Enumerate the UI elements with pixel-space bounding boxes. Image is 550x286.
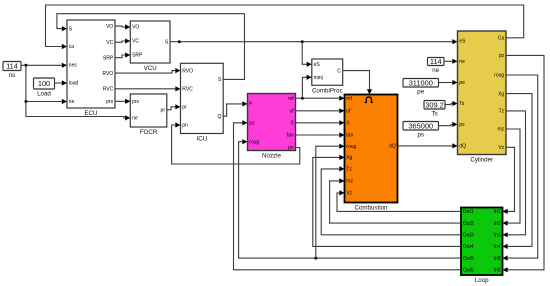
wire S branch -> CombiProc.eS <box>302 42 312 67</box>
junction S branch for CombiProc <box>301 40 304 43</box>
wire Cylinder.pz -> Loop.In6 <box>503 55 545 272</box>
svg-text:ne: ne <box>459 59 465 65</box>
wire ps const -> Cylinder.ps <box>439 122 458 127</box>
constant Load (100) <box>34 78 55 98</box>
wire FOCR.pr -> ICU.pr <box>167 104 181 110</box>
svg-text:Ts: Ts <box>431 111 437 118</box>
svg-text:ns: ns <box>9 72 16 79</box>
wire Loop.Out6 -> Nozzle.pz <box>234 120 462 270</box>
svg-text:eS: eS <box>459 39 466 45</box>
wire Cylinder.Tz -> Loop.In3 <box>503 111 526 237</box>
svg-text:Out2: Out2 <box>463 221 474 227</box>
svg-text:Out5: Out5 <box>463 256 474 262</box>
block ICU <box>181 63 224 142</box>
wire ICU.Q -> Nozzle.F <box>223 101 247 116</box>
svg-text:F: F <box>249 102 252 108</box>
svg-text:roug: roug <box>346 144 356 150</box>
svg-text:311000: 311000 <box>409 78 433 87</box>
svg-text:VCU: VCU <box>144 65 157 72</box>
svg-text:SRP: SRP <box>103 55 114 61</box>
svg-text:pn: pn <box>182 123 188 129</box>
svg-text:tan: tan <box>287 133 294 139</box>
block CombiProc <box>312 59 343 95</box>
svg-text:VO: VO <box>106 24 113 30</box>
svg-text:pr: pr <box>182 105 187 111</box>
svg-text:In1: In1 <box>494 209 501 215</box>
svg-text:pe: pe <box>417 89 424 96</box>
wire Nozzle.pn -> ICU.pn <box>172 122 300 164</box>
svg-text:365000: 365000 <box>408 121 433 130</box>
wire Loop.Out3 -> Combustion.Tz <box>321 166 461 235</box>
svg-text:Xg: Xg <box>346 155 352 161</box>
svg-text:100: 100 <box>38 79 50 88</box>
svg-text:nes: nes <box>69 63 78 69</box>
svg-text:ne: ne <box>432 67 439 74</box>
icon: combustion profile symbol on Combustion top <box>365 97 373 103</box>
svg-text:uf: uf <box>346 109 351 115</box>
constant ns (114) <box>3 62 21 80</box>
wire Loop.Out4 -> Combustion.Xg <box>313 155 461 247</box>
svg-text:Ca: Ca <box>498 36 505 42</box>
junction Out5 branch <box>314 257 317 260</box>
svg-text:pn: pn <box>288 145 294 151</box>
svg-text:Out1: Out1 <box>463 209 474 215</box>
svg-text:pr: pr <box>161 108 166 114</box>
svg-text:Ts: Ts <box>459 101 465 107</box>
svg-text:Load: Load <box>37 91 51 98</box>
svg-text:RVO: RVO <box>182 68 193 74</box>
wire VCU.S -> Cylinder.eS <box>170 39 458 44</box>
wire ECU.VO -> VCU.VO <box>115 24 130 29</box>
svg-text:mf: mf <box>346 96 352 102</box>
svg-text:114: 114 <box>6 62 18 71</box>
svg-text:In6: In6 <box>494 268 501 274</box>
svg-text:ne: ne <box>69 99 75 105</box>
svg-text:309.2: 309.2 <box>425 100 444 109</box>
wire Cylinder.roug -> Loop.In5 <box>503 75 538 261</box>
wire Load -> ECU.load <box>55 80 68 85</box>
block Combustion <box>345 95 398 212</box>
svg-text:pz: pz <box>499 53 505 59</box>
wire Nozzle.mf -> Combustion.mf <box>296 96 345 101</box>
svg-text:ca: ca <box>69 44 75 50</box>
constant Ts (309.2) <box>424 100 445 117</box>
block Loop <box>461 208 503 285</box>
svg-text:ne: ne <box>132 116 138 122</box>
svg-text:eS: eS <box>314 62 321 68</box>
wire Out5 branch -> Combustion.roug <box>316 144 345 259</box>
block Cylinder <box>458 31 507 164</box>
svg-text:Combustion: Combustion <box>354 205 388 212</box>
svg-text:dQ: dQ <box>459 144 466 150</box>
svg-text:ps: ps <box>417 132 424 139</box>
svg-text:VC: VC <box>106 40 113 46</box>
wire Combustion.dQ -> Cylinder.dQ <box>398 143 458 148</box>
svg-text:Xg: Xg <box>498 91 504 97</box>
constant ps (365000) <box>403 121 439 138</box>
svg-text:Nozzle: Nozzle <box>262 153 281 160</box>
wire Ts const -> Cylinder.Ts <box>445 101 458 106</box>
svg-text:In5: In5 <box>494 256 501 262</box>
svg-text:RVO: RVO <box>102 71 113 77</box>
svg-text:In3: In3 <box>494 233 501 239</box>
svg-text:tan: tan <box>346 133 353 139</box>
svg-text:RVC: RVC <box>182 87 193 93</box>
wire pe const -> Cylinder.pe <box>439 80 458 85</box>
junction ns branch <box>24 64 27 67</box>
wire Nozzle.tan -> Combustion.tan <box>296 132 345 137</box>
svg-text:roug: roug <box>249 139 259 145</box>
svg-text:pe: pe <box>459 80 465 86</box>
svg-text:C: C <box>337 68 341 74</box>
svg-text:VC: VC <box>132 39 139 45</box>
constant pe (311000) <box>403 78 439 95</box>
svg-text:uf: uf <box>290 109 295 115</box>
wire Cylinder.Vz -> Loop.In1 <box>503 147 515 214</box>
svg-text:prs: prs <box>132 99 139 105</box>
block Nozzle <box>248 94 296 160</box>
block ECU <box>67 20 115 117</box>
svg-text:dQ: dQ <box>389 144 396 150</box>
svg-text:Q: Q <box>218 114 222 120</box>
svg-text:load: load <box>69 81 79 87</box>
wire Nozzle.uf -> Combustion.uf <box>296 108 345 113</box>
svg-text:RVC: RVC <box>103 87 114 93</box>
junction ne branch <box>24 100 27 103</box>
wire Nozzle.S -> Combustion.S <box>296 120 345 125</box>
block FOCR <box>130 94 167 136</box>
svg-text:Tz: Tz <box>499 109 505 115</box>
wire ne const -> Cylinder.ne <box>444 59 458 64</box>
svg-text:CombiProc: CombiProc <box>312 88 343 95</box>
svg-text:mz: mz <box>346 179 353 185</box>
svg-text:Tz: Tz <box>346 167 352 173</box>
wire Loop.Out1 -> Combustion.Vz <box>337 190 461 211</box>
wire Cylinder.mz -> Loop.In2 <box>503 129 521 226</box>
svg-text:SRP: SRP <box>132 53 143 59</box>
svg-text:Vz: Vz <box>346 191 352 197</box>
constant ne (114) <box>428 57 445 74</box>
wire ns branch -> ECU.ne <box>26 65 67 104</box>
svg-text:minj: minj <box>314 75 323 81</box>
svg-text:FOCR: FOCR <box>140 129 158 136</box>
svg-text:ICU: ICU <box>197 136 208 143</box>
svg-text:Out4: Out4 <box>463 244 474 250</box>
wire mf branch -> CombiProc.minj <box>302 75 311 99</box>
wire ECU.prs -> FOCR.prs <box>115 99 130 104</box>
svg-text:roug: roug <box>494 73 504 79</box>
wire CombiProc.C -> Combustion trigger <box>343 71 372 95</box>
svg-text:In2: In2 <box>494 221 501 227</box>
junction mf branch <box>301 97 304 100</box>
svg-text:Out6: Out6 <box>463 268 474 274</box>
svg-text:Cylinder: Cylinder <box>470 157 493 164</box>
svg-text:mf: mf <box>288 96 294 102</box>
junction S branch <box>178 40 181 43</box>
wire ECU.VC -> VCU.VC <box>115 38 130 43</box>
svg-text:pz: pz <box>249 121 255 127</box>
wire Cylinder.Xg -> Loop.In4 <box>503 94 533 249</box>
svg-text:ps: ps <box>459 122 465 128</box>
wire ECU.RVO -> ICU.RVO <box>115 68 181 73</box>
svg-text:VO: VO <box>132 25 139 31</box>
wire Loop.Out5 -> Nozzle.roug <box>239 139 461 258</box>
wire Cylinder.Ca -> ECU.ca <box>46 5 524 49</box>
svg-text:mz: mz <box>498 127 505 133</box>
block VCU <box>130 21 170 72</box>
svg-text:In4: In4 <box>494 244 501 250</box>
wire ECU.RVC -> ICU.RVC <box>115 86 181 91</box>
wire ns -> ECU.nes <box>21 63 67 68</box>
wire ICU.S -> ECU.S <box>57 14 245 80</box>
wire ECU.SRP -> VCU.SRP <box>115 52 130 57</box>
wire ne branch -> FOCR.ne <box>26 102 130 121</box>
wire Loop.Out2 -> Combustion.mz <box>330 178 461 223</box>
svg-text:Loop: Loop <box>475 277 489 284</box>
svg-text:Out3: Out3 <box>463 233 474 239</box>
svg-text:prs: prs <box>106 99 113 105</box>
svg-text:Vz: Vz <box>498 145 504 151</box>
svg-text:114: 114 <box>430 57 442 66</box>
